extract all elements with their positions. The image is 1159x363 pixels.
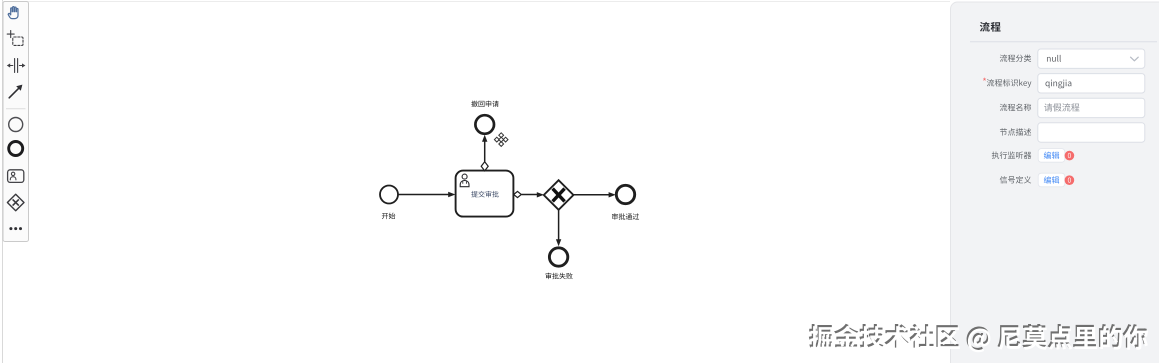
panel header 流程 bbox=[980, 22, 1001, 32]
palette create gateway icon bbox=[7, 194, 24, 211]
sequence flow task to gateway bbox=[522, 192, 545, 197]
properties panel left border bbox=[951, 2, 1159, 363]
label 流程分类 bbox=[1000, 54, 1031, 61]
end event 撤回申请 bbox=[475, 115, 494, 134]
label 开始 bbox=[382, 213, 395, 219]
badge 0 signal bbox=[1065, 175, 1075, 185]
button 编辑 listener bbox=[1038, 149, 1065, 163]
sequence flow task to 撤回申请 bbox=[482, 135, 487, 162]
sequence flow gateway to 审批通过 bbox=[573, 192, 615, 197]
watermark 掘金技术社区 @ 尼莫点里的你 bbox=[809, 324, 1148, 353]
input value qingjia bbox=[1045, 80, 1071, 89]
palette global connect tool icon bbox=[9, 85, 22, 98]
sequence flow gateway to 审批失败 bbox=[556, 210, 561, 246]
label 流程名称 bbox=[1000, 104, 1031, 111]
palette container bbox=[3, 2, 29, 242]
label 流程标识key bbox=[987, 79, 1032, 88]
palette more entries dots bbox=[9, 227, 22, 230]
palette separator bbox=[6, 108, 26, 110]
palette lasso tool icon bbox=[7, 31, 23, 46]
properties panel background bbox=[951, 2, 1159, 363]
palette create start event icon bbox=[9, 118, 23, 132]
palette create task icon bbox=[8, 170, 24, 183]
label 提交审批 bbox=[471, 191, 499, 198]
label 撤回申请 bbox=[471, 101, 498, 108]
user task person icon bbox=[460, 174, 469, 187]
end event 审批通过 bbox=[616, 185, 634, 203]
input value 请假流程 bbox=[1044, 103, 1079, 111]
button 编辑 signal bbox=[1038, 173, 1065, 187]
app container top border bbox=[3, 1, 951, 3]
palette space tool icon bbox=[7, 59, 26, 73]
start event 开始 bbox=[380, 186, 398, 204]
sequence flow start to task bbox=[398, 192, 455, 197]
label 审批通过 bbox=[612, 213, 639, 219]
conditional marker on flow task to gateway bbox=[514, 191, 522, 197]
end event 审批失败 bbox=[549, 248, 567, 266]
app container left border bbox=[2, 0, 4, 363]
palette create end event icon bbox=[9, 142, 23, 156]
input 流程标识key box bbox=[1038, 74, 1145, 93]
input 流程名称 box bbox=[1038, 98, 1145, 117]
palette hand tool icon bbox=[8, 7, 18, 19]
user task 提交审批 bbox=[456, 171, 514, 217]
exclusive gateway X bbox=[544, 180, 574, 210]
label 执行监听器 bbox=[992, 151, 1032, 158]
diamond cluster marker bbox=[494, 133, 508, 147]
select 流程分类 box bbox=[1038, 49, 1145, 68]
conditional marker on flow task to 撤回申请 bbox=[481, 162, 488, 171]
required asterisk bbox=[983, 78, 986, 81]
panel header divider bbox=[970, 41, 1157, 43]
label 信号定义 bbox=[1000, 176, 1031, 183]
badge 0 listener bbox=[1065, 151, 1075, 161]
select value null bbox=[1047, 55, 1061, 62]
label 节点描述 bbox=[1000, 128, 1031, 135]
label 审批失败 bbox=[546, 273, 573, 279]
select chevron bbox=[1131, 57, 1139, 61]
input 节点描述 box bbox=[1038, 123, 1145, 142]
